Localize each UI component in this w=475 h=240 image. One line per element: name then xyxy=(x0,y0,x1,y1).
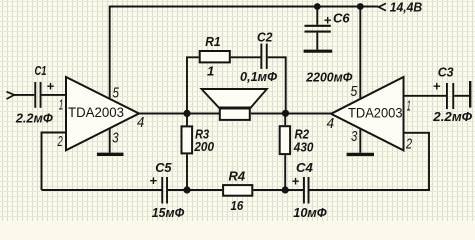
speaker xyxy=(202,89,267,120)
svg-text:+: + xyxy=(324,12,332,27)
svg-text:+: + xyxy=(292,174,300,189)
node junction dot at U2 pin5 riser top xyxy=(357,3,364,10)
svg-text:3: 3 xyxy=(112,130,119,147)
svg-text:C1: C1 xyxy=(35,63,47,78)
svg-text:5: 5 xyxy=(350,83,357,100)
node junction dot R3 bottom xyxy=(183,186,190,193)
node A junction dot xyxy=(183,110,190,117)
capacitor C1 xyxy=(34,82,41,108)
svg-text:14,4В: 14,4В xyxy=(390,0,423,14)
svg-text:TDA2003: TDA2003 xyxy=(348,104,403,120)
svg-text:1: 1 xyxy=(59,96,64,113)
svg-text:2200мФ: 2200мФ xyxy=(305,70,353,85)
svg-text:+: + xyxy=(433,79,441,94)
svg-text:2.2мФ: 2.2мФ xyxy=(15,111,54,126)
capacitor C4 xyxy=(303,177,310,204)
wire U2 pin 1 to C3 xyxy=(404,95,447,97)
input terminal arrow xyxy=(7,92,15,99)
svg-text:10мФ: 10мФ xyxy=(293,205,327,220)
wire C1 to U1 pin 1 xyxy=(42,94,67,96)
wire U1 pin 2 to bottom rail xyxy=(42,133,67,191)
op-amp U2 TDA2003 right xyxy=(331,77,404,150)
wire top supply rail xyxy=(110,6,379,8)
wire U1 output pin4 to speaker (node A) xyxy=(138,113,219,115)
capacitor C5 xyxy=(161,177,168,204)
svg-text:4: 4 xyxy=(327,115,335,132)
wire input to C1 xyxy=(14,94,34,96)
wire U2 pin 2 down to bottom rail xyxy=(404,133,430,190)
wire riser from top rail to U2 pin 5 xyxy=(359,6,361,99)
wire bottom rail left (pin2 U1 to C5) xyxy=(42,189,163,191)
wire riser from top rail to U1 pin 5 xyxy=(109,6,111,99)
wire C5 to R4 xyxy=(168,189,222,191)
power terminal arrow xyxy=(379,3,386,10)
output terminal bar at right edge xyxy=(469,81,471,108)
svg-text:4: 4 xyxy=(137,114,144,131)
ground under U1 pin 3 xyxy=(97,128,124,154)
capacitor C3 xyxy=(446,83,454,109)
capacitor C2 xyxy=(260,44,267,69)
svg-text:TDA2003: TDA2003 xyxy=(68,104,124,120)
wire R4 to C4 xyxy=(253,189,303,191)
svg-text:R1: R1 xyxy=(205,34,220,49)
resistor R2 xyxy=(280,114,290,191)
svg-text:+: + xyxy=(47,79,55,94)
svg-text:3: 3 xyxy=(351,128,358,145)
svg-text:1: 1 xyxy=(207,63,214,78)
wire C4 to U2 pin2 riser xyxy=(310,189,431,191)
ground under U2 pin 3 xyxy=(347,129,374,155)
svg-text:R4: R4 xyxy=(229,168,246,183)
svg-text:5: 5 xyxy=(113,85,120,102)
svg-text:0,1мФ: 0,1мФ xyxy=(240,69,278,84)
op-amp U1 TDA2003 left xyxy=(66,77,139,150)
svg-text:2: 2 xyxy=(405,136,412,153)
svg-text:16: 16 xyxy=(231,198,244,213)
node junction dot R2 bottom xyxy=(282,186,289,193)
wire R1 to C2 xyxy=(231,56,261,58)
svg-text:430: 430 xyxy=(293,140,314,155)
svg-text:15мФ: 15мФ xyxy=(152,205,185,220)
svg-text:2.2мФ: 2.2мФ xyxy=(432,109,473,124)
ground under C6 xyxy=(304,50,333,53)
node B junction dot xyxy=(282,110,289,117)
svg-text:C5: C5 xyxy=(155,160,172,175)
capacitor C6 (electrolytic to ground) xyxy=(305,7,331,50)
resistor R4 xyxy=(223,185,252,196)
svg-text:C2: C2 xyxy=(257,30,273,45)
svg-text:C3: C3 xyxy=(438,64,455,79)
wire C2 to node B xyxy=(268,57,286,113)
wire speaker to U2 pin4 (node B) xyxy=(251,113,332,115)
wire C3 to output bar xyxy=(454,95,469,97)
wire riser node A up to R1/C2 branch xyxy=(187,57,199,113)
resistor R3 xyxy=(182,114,193,191)
svg-text:1: 1 xyxy=(407,98,411,115)
svg-text:2: 2 xyxy=(57,133,63,150)
resistor R1 xyxy=(200,51,230,62)
svg-text:C6: C6 xyxy=(333,10,350,25)
node junction dot at C6 top xyxy=(314,3,321,10)
svg-text:+: + xyxy=(149,173,157,188)
svg-text:200: 200 xyxy=(193,139,214,154)
